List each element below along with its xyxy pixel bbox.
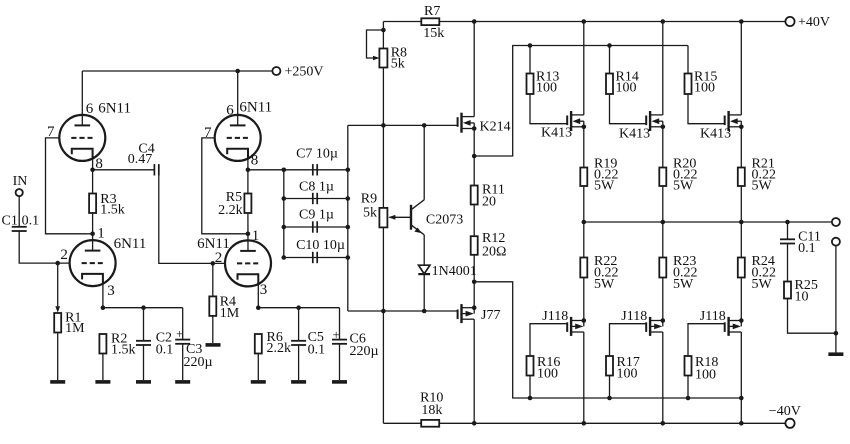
svg-text:6: 6	[226, 103, 234, 119]
svg-text:1.5k: 1.5k	[100, 203, 125, 218]
svg-text:100: 100	[616, 81, 637, 96]
svg-text:5W: 5W	[594, 179, 615, 194]
svg-text:100: 100	[617, 367, 638, 382]
svg-text:15k: 15k	[423, 26, 444, 41]
svg-text:0.1: 0.1	[156, 343, 174, 358]
svg-text:7: 7	[204, 125, 212, 141]
svg-text:R7: R7	[424, 4, 440, 19]
svg-text:2.2k: 2.2k	[218, 203, 243, 218]
svg-text:1M: 1M	[65, 321, 85, 336]
svg-text:1: 1	[252, 228, 259, 244]
svg-text:20Ω: 20Ω	[482, 244, 506, 259]
svg-text:K214: K214	[480, 119, 511, 134]
svg-text:0.1: 0.1	[798, 241, 816, 256]
svg-text:1M: 1M	[220, 306, 240, 321]
svg-text:2: 2	[60, 247, 68, 263]
svg-text:0.47: 0.47	[128, 152, 153, 167]
svg-text:C7 10µ: C7 10µ	[296, 147, 338, 162]
svg-text:IN: IN	[13, 174, 28, 189]
svg-text:8: 8	[95, 156, 103, 172]
svg-text:10: 10	[795, 289, 809, 304]
svg-text:C2073: C2073	[426, 213, 463, 228]
svg-text:2: 2	[215, 250, 223, 266]
svg-text:100: 100	[695, 368, 716, 383]
svg-text:100: 100	[694, 81, 715, 96]
svg-text:J118: J118	[542, 309, 568, 324]
svg-text:100: 100	[536, 81, 557, 96]
svg-text:0.1: 0.1	[308, 343, 326, 358]
svg-text:8: 8	[251, 153, 259, 169]
svg-text:6N11: 6N11	[114, 236, 147, 252]
svg-text:6N11: 6N11	[197, 236, 230, 252]
svg-text:K413: K413	[700, 127, 731, 142]
svg-text:J118: J118	[621, 309, 647, 324]
svg-text:220µ: 220µ	[184, 355, 213, 370]
svg-text:C1: C1	[2, 214, 18, 229]
svg-text:100: 100	[537, 367, 558, 382]
svg-text:J77: J77	[481, 308, 500, 323]
svg-text:5W: 5W	[752, 277, 773, 292]
svg-text:J118: J118	[700, 309, 726, 324]
svg-text:0.1: 0.1	[22, 214, 39, 229]
svg-text:6: 6	[86, 101, 94, 117]
svg-text:3: 3	[107, 283, 115, 299]
svg-text:K413: K413	[541, 126, 572, 141]
svg-text:20: 20	[482, 195, 496, 210]
svg-text:3: 3	[260, 282, 268, 298]
svg-text:5k: 5k	[391, 56, 405, 71]
svg-text:R9: R9	[361, 192, 377, 207]
svg-text:+40V: +40V	[798, 15, 830, 30]
svg-text:−40V: −40V	[769, 404, 801, 419]
svg-text:6N11: 6N11	[98, 100, 131, 116]
svg-text:C10 10µ: C10 10µ	[296, 238, 345, 253]
svg-text:C8 1µ: C8 1µ	[299, 179, 334, 194]
svg-text:1.5k: 1.5k	[111, 343, 136, 358]
svg-text:5W: 5W	[673, 179, 694, 194]
svg-text:5k: 5k	[363, 206, 377, 221]
svg-text:1N4001: 1N4001	[432, 264, 477, 279]
svg-text:220µ: 220µ	[350, 344, 379, 359]
svg-text:K413: K413	[619, 127, 650, 142]
svg-text:C9 1µ: C9 1µ	[299, 208, 334, 223]
svg-text:5W: 5W	[752, 179, 773, 194]
svg-text:1: 1	[97, 226, 105, 242]
svg-text:+: +	[333, 327, 340, 342]
svg-text:+: +	[176, 326, 183, 341]
svg-text:5W: 5W	[594, 277, 615, 292]
svg-text:18k: 18k	[421, 403, 442, 418]
svg-text:7: 7	[47, 124, 55, 140]
svg-text:+250V: +250V	[285, 65, 324, 80]
svg-text:6N11: 6N11	[239, 100, 272, 116]
svg-text:5W: 5W	[673, 277, 694, 292]
svg-text:2.2k: 2.2k	[267, 341, 292, 356]
